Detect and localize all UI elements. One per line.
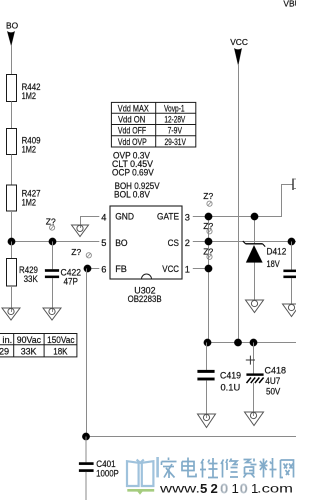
junction Z column / GATE: [205, 213, 213, 221]
svg-text:47P: 47P: [64, 276, 79, 286]
svg-text:D412: D412: [267, 247, 287, 257]
junction y342 / Z column: [204, 339, 212, 347]
table input voltage / R429 value: [0, 334, 77, 357]
svg-text:0: 0: [221, 481, 228, 496]
svg-text:BOL 0.8V: BOL 0.8V: [114, 190, 151, 200]
svg-text:C419: C419: [220, 370, 241, 380]
svg-text:1M2: 1M2: [22, 91, 36, 101]
ground (C418): [245, 412, 264, 426]
zener Z? (bottom of column): [203, 247, 213, 260]
capacitor C418 (electrolytic): [246, 343, 286, 417]
note OVP/CLT/OCP/BOH/BOL values: [112, 150, 160, 199]
wire R409 to R427: [11, 155, 13, 186]
junction Z column / CS: [205, 238, 213, 246]
svg-text:GATE: GATE: [157, 211, 179, 221]
svg-text:4: 4: [101, 212, 106, 222]
svg-text:in.: in.: [2, 335, 12, 345]
svg-text:C418: C418: [265, 366, 287, 376]
resistor R427: [7, 185, 41, 211]
svg-text:Vdd OFF: Vdd OFF: [118, 126, 147, 136]
svg-text:3: 3: [185, 212, 190, 222]
svg-text:OB2283B: OB2283B: [128, 294, 162, 304]
svg-text:Z?: Z?: [203, 247, 213, 257]
svg-text:0: 0: [240, 481, 247, 496]
capacitor C422: [45, 242, 81, 313]
junction bottom rail / C401: [82, 433, 90, 441]
svg-text:18V: 18V: [267, 259, 281, 269]
svg-text:5: 5: [200, 481, 207, 496]
svg-text:7-9V: 7-9V: [168, 126, 183, 136]
svg-text:OCP 0.69V: OCP 0.69V: [112, 168, 155, 178]
watermark logo book icon: [127, 460, 153, 486]
watermark chinese glyph 4: [221, 459, 238, 478]
wire pin4 GND: [80, 217, 99, 229]
junction y342 / VCC line: [234, 339, 242, 347]
junction FB: [84, 265, 92, 273]
svg-text:1000P: 1000P: [96, 469, 119, 479]
svg-text:Vovp-1: Vovp-1: [164, 104, 185, 114]
svg-text:18K: 18K: [53, 347, 68, 357]
capacitor (right edge, cut): [284, 242, 297, 305]
svg-text:0.1U: 0.1U: [221, 382, 241, 392]
watermark chinese glyph 7: [281, 460, 294, 478]
svg-text:1: 1: [185, 264, 190, 274]
watermark chinese glyph 5: [244, 459, 257, 478]
svg-text:2: 2: [185, 238, 190, 248]
resistor R409: [7, 129, 41, 155]
svg-text:90Vac: 90Vac: [17, 335, 42, 345]
watermark chinese glyph 3: [200, 458, 218, 478]
wire VCC rail y342: [209, 342, 297, 344]
watermark separator bar: [156, 457, 159, 477]
watermark chinese glyph 1: [162, 458, 177, 479]
watermark chinese glyph 2: [182, 458, 196, 477]
svg-text:2: 2: [211, 481, 218, 496]
wire FB down to bottom: [86, 269, 88, 437]
wire pin6 FB: [87, 268, 99, 270]
svg-text:33K: 33K: [21, 347, 38, 357]
svg-text:6: 6: [101, 264, 106, 274]
watermark chinese glyph 6: [260, 458, 277, 478]
ground (right edge cap): [283, 304, 301, 317]
svg-text:VBUS: VBUS: [283, 0, 296, 8]
svg-text:Z?: Z?: [71, 247, 81, 257]
watermark url: [159, 481, 293, 496]
junction y342 / C418: [250, 339, 258, 347]
svg-text:C401: C401: [96, 459, 115, 469]
wire GATE (pin3): [193, 184, 293, 217]
svg-text:33K: 33K: [24, 274, 39, 284]
ground (C422): [43, 308, 61, 320]
diode D412 zener 18V: [243, 241, 286, 269]
svg-text:GND: GND: [115, 211, 134, 221]
ground (D412): [246, 300, 264, 313]
resistor R442: [7, 75, 41, 102]
wire R427 to BO node: [11, 211, 13, 242]
svg-text:CS: CS: [168, 238, 179, 248]
capacitor C401: [79, 459, 119, 500]
capacitor C419: [198, 343, 242, 419]
svg-text:5: 5: [101, 238, 106, 248]
svg-text:BO: BO: [115, 238, 127, 248]
svg-text:.com: .com: [257, 484, 293, 496]
svg-text:1M2: 1M2: [22, 144, 36, 154]
resistor R429: [7, 242, 39, 313]
ground (R429): [2, 308, 20, 320]
svg-text:150Vac: 150Vac: [47, 335, 75, 345]
wire bottom rail y436: [86, 436, 296, 438]
svg-text:1M2: 1M2: [22, 198, 36, 208]
wire CS (pin2): [193, 241, 296, 243]
svg-text:4U7: 4U7: [265, 376, 280, 386]
wire D412 branch: [254, 217, 256, 301]
zener Z? (at C422 node): [46, 216, 56, 230]
junction BO/R429: [8, 238, 16, 246]
transistor gate electrode (cut at edge): [293, 179, 296, 191]
svg-text:12-28V: 12-28V: [164, 115, 185, 125]
junction BO/C422: [49, 238, 57, 246]
wire Z column vertical: [208, 217, 210, 343]
junction CS / right cap: [288, 238, 296, 246]
svg-text:29: 29: [0, 347, 9, 357]
wire VCC pin1: [193, 268, 209, 270]
svg-text:Vdd OVP: Vdd OVP: [118, 137, 147, 147]
node VCC arrow: [234, 48, 242, 65]
wire BO horizontal to IC pin 5: [11, 241, 99, 243]
zener Z? (middle of column): [203, 221, 213, 234]
wire R442 to R409: [11, 102, 13, 129]
ground (C419): [198, 414, 216, 428]
svg-text:VCC: VCC: [230, 37, 248, 47]
ground (pin4): [72, 225, 89, 237]
watermark logo book base: [127, 490, 154, 495]
wire VCC vertical: [238, 64, 240, 343]
zener Z? (top of column): [203, 191, 213, 206]
svg-text:BO: BO: [6, 21, 19, 31]
svg-text:Vdd ON: Vdd ON: [118, 115, 145, 125]
junction Z column / VCC: [205, 265, 213, 273]
junction GATE / D412: [251, 213, 259, 221]
svg-text:Vdd MAX: Vdd MAX: [118, 104, 149, 114]
svg-text:50V: 50V: [266, 387, 281, 397]
svg-text:FB: FB: [115, 264, 127, 274]
node BO arrow: [7, 31, 15, 46]
table Vdd parameters: [111, 102, 195, 147]
wire BO arrow to R442: [11, 45, 13, 75]
svg-text:Z?: Z?: [203, 191, 213, 201]
svg-text:VCC: VCC: [162, 264, 179, 274]
zener Z? (FB node): [71, 247, 91, 258]
svg-text:29-31V: 29-31V: [164, 137, 186, 147]
svg-text:www.: www.: [159, 484, 200, 496]
svg-text:1: 1: [232, 481, 239, 496]
op-amp U302 OB2283B body: [110, 206, 182, 304]
